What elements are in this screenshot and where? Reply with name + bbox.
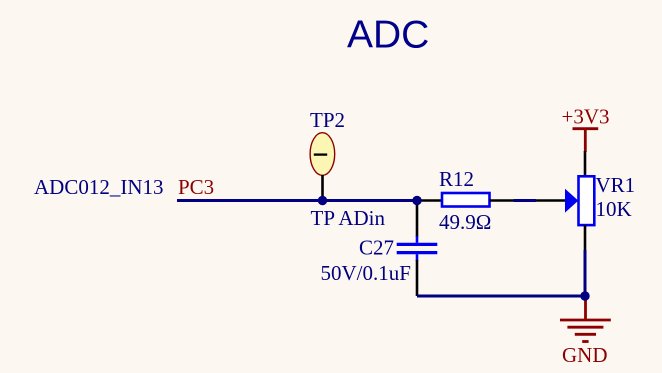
svg-text:R12: R12 xyxy=(439,167,474,191)
pin of TP2 xyxy=(321,175,324,201)
junction node at TP2 xyxy=(318,196,327,205)
svg-text:10K: 10K xyxy=(596,197,632,221)
test point TP2 designator xyxy=(310,108,345,132)
ground symbol xyxy=(560,296,611,342)
net label PC3 xyxy=(178,175,214,199)
net label ADC012_IN13 xyxy=(34,175,164,199)
wiper arrow of VR1 xyxy=(565,189,578,213)
svg-text:VR1: VR1 xyxy=(596,173,636,197)
resistor R12 body xyxy=(442,193,490,207)
junction node B (bottom) xyxy=(580,291,589,300)
svg-text:ADC012_IN13: ADC012_IN13 xyxy=(34,175,164,199)
svg-text:GND: GND xyxy=(562,343,608,367)
power port +3V3 text xyxy=(562,104,610,128)
resistor R12 value 49.9Ohm xyxy=(439,210,491,234)
capacitor C27 value 50V/0.1uF xyxy=(321,261,411,285)
power port +3V3 symbol (bar) xyxy=(573,129,599,152)
resistor R12 designator xyxy=(439,167,474,191)
net name TP ADin xyxy=(311,206,386,230)
pin 1 of C27 xyxy=(416,201,419,243)
wiper pin of VR1 xyxy=(536,199,565,202)
capacitor C27 body (plates) xyxy=(397,244,438,252)
wire main horizontal from PC3 to node at R12 xyxy=(177,199,418,202)
pin 2 of R12 xyxy=(490,199,514,202)
pin 1 of VR1 (top) xyxy=(584,151,587,176)
svg-text:50V/0.1uF: 50V/0.1uF xyxy=(321,261,411,285)
test point TP2 body xyxy=(310,133,335,176)
wire VR1 bottom to ground node xyxy=(584,250,587,296)
junction node A (wire / R12 / C27) xyxy=(412,196,421,205)
svg-text:TP2: TP2 xyxy=(310,108,345,132)
svg-text:C27: C27 xyxy=(359,235,394,259)
title ADC xyxy=(347,14,429,57)
pin number 1 of TP2 (rotated digit) xyxy=(314,153,327,155)
svg-text:+3V3: +3V3 xyxy=(562,104,610,128)
potentiometer VR1 designator xyxy=(596,173,636,197)
svg-text:ADC: ADC xyxy=(347,14,429,57)
svg-text:PC3: PC3 xyxy=(178,175,214,199)
capacitor C27 designator xyxy=(359,235,394,259)
wire from R12 to VR1 wiper xyxy=(514,199,537,202)
wire bottom from C27 to VR1 bottom xyxy=(417,295,585,298)
ground net label GND xyxy=(562,343,608,367)
pin 3 of VR1 (bottom) xyxy=(584,225,587,251)
pin 2 of C27 xyxy=(416,254,419,296)
svg-text:TP ADin: TP ADin xyxy=(311,206,386,230)
svg-text:49.9Ω: 49.9Ω xyxy=(439,210,491,234)
potentiometer VR1 body xyxy=(579,176,595,225)
potentiometer VR1 value 10K xyxy=(596,197,632,221)
pin 1 of R12 xyxy=(418,199,442,202)
